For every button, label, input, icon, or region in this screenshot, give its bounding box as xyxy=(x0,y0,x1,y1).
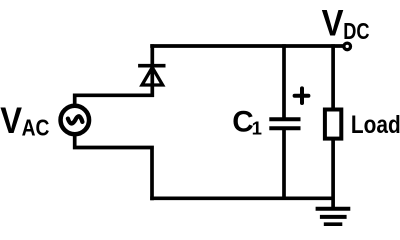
wire top rail xyxy=(150,44,343,48)
capacitor C1 top plate xyxy=(269,117,300,121)
label C1 xyxy=(232,106,262,139)
svg-text:C: C xyxy=(232,106,253,139)
wire capacitor branch bottom xyxy=(282,130,286,200)
wire bottom rail xyxy=(150,196,333,200)
wire capacitor branch top xyxy=(282,44,286,117)
ac source sine wave xyxy=(68,116,83,123)
wire load branch top xyxy=(331,44,335,110)
ground xyxy=(316,209,351,225)
capacitor C1 bottom plate xyxy=(269,126,300,130)
plus sign polarity mark xyxy=(295,88,309,103)
wire load branch bottom xyxy=(331,139,335,209)
svg-text:V: V xyxy=(322,3,344,44)
wire diode anode to source top xyxy=(75,94,154,106)
svg-text:Load: Load xyxy=(351,112,400,139)
svg-text:DC: DC xyxy=(343,18,369,44)
label V_DC xyxy=(322,3,370,44)
svg-text:V: V xyxy=(0,100,22,141)
wire source bottom xyxy=(73,136,154,200)
svg-text:1: 1 xyxy=(252,117,262,138)
diode D1 cathode bar xyxy=(138,64,165,68)
node V_DC terminal xyxy=(344,43,351,50)
svg-text:AC: AC xyxy=(22,115,50,141)
wire diode branch vertical xyxy=(150,44,154,97)
ac source V_AC circle xyxy=(61,106,90,135)
label V_AC xyxy=(0,100,49,141)
diode D1 anode triangle xyxy=(142,67,163,85)
load resistor box xyxy=(325,110,341,139)
